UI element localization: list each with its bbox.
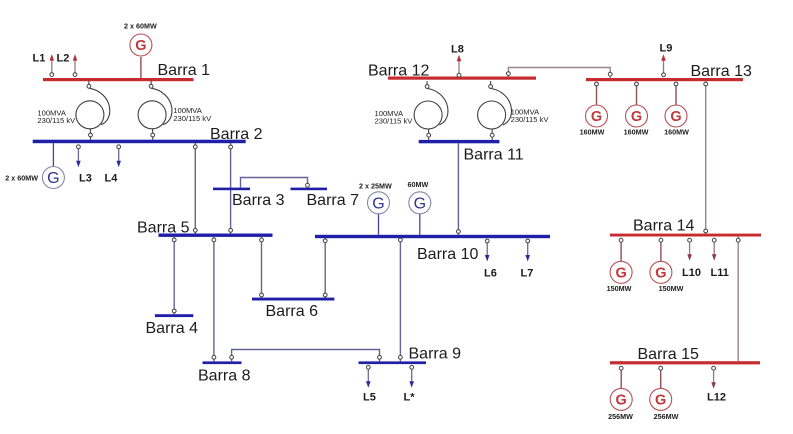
svg-text:230/115 kV: 230/115 kV — [173, 114, 212, 123]
svg-text:L7: L7 — [521, 268, 534, 280]
svg-text:Barra 7: Barra 7 — [307, 192, 360, 209]
svg-text:Barra 4: Barra 4 — [146, 320, 199, 337]
svg-text:L6: L6 — [484, 268, 497, 280]
svg-text:Barra 1: Barra 1 — [158, 62, 211, 79]
svg-text:150MW: 150MW — [659, 284, 684, 293]
svg-text:L4: L4 — [105, 173, 119, 185]
svg-text:60MW: 60MW — [408, 180, 429, 189]
svg-text:Barra 6: Barra 6 — [266, 303, 319, 320]
svg-text:Barra 10: Barra 10 — [417, 246, 478, 263]
svg-text:230/115 kV: 230/115 kV — [37, 116, 76, 125]
svg-text:L12: L12 — [707, 392, 726, 404]
svg-text:Barra 3: Barra 3 — [232, 192, 285, 209]
svg-text:Barra 9: Barra 9 — [409, 346, 462, 363]
svg-text:Barra 11: Barra 11 — [464, 147, 524, 164]
svg-text:L10: L10 — [682, 267, 701, 279]
svg-text:Barra 5: Barra 5 — [137, 220, 190, 237]
svg-text:L*: L* — [404, 392, 416, 404]
svg-text:160MW: 160MW — [664, 128, 689, 137]
svg-text:Barra 13: Barra 13 — [691, 63, 752, 80]
svg-text:Barra 2: Barra 2 — [210, 126, 263, 143]
svg-text:L5: L5 — [363, 392, 376, 404]
svg-text:L1: L1 — [33, 53, 46, 65]
svg-text:Barra 14: Barra 14 — [633, 218, 694, 235]
svg-text:L3: L3 — [79, 173, 92, 185]
svg-text:Barra 12: Barra 12 — [368, 63, 429, 80]
svg-text:256MW: 256MW — [654, 412, 679, 421]
svg-text:Barra 8: Barra 8 — [198, 368, 251, 385]
svg-text:160MW: 160MW — [580, 128, 605, 137]
svg-text:160MW: 160MW — [624, 128, 649, 137]
svg-text:2 x 60MW: 2 x 60MW — [5, 174, 38, 183]
svg-text:2 x 60MW: 2 x 60MW — [124, 22, 157, 31]
svg-text:L11: L11 — [711, 267, 729, 279]
svg-text:230/115 kV: 230/115 kV — [375, 117, 414, 126]
svg-text:L8: L8 — [451, 44, 464, 56]
svg-text:256MW: 256MW — [608, 412, 633, 421]
svg-text:150MW: 150MW — [607, 284, 632, 293]
svg-text:2 x 25MW: 2 x 25MW — [359, 182, 392, 191]
svg-text:Barra 15: Barra 15 — [638, 346, 699, 363]
svg-text:230/115 kV: 230/115 kV — [511, 115, 550, 124]
svg-text:L9: L9 — [660, 43, 673, 55]
svg-text:L2: L2 — [57, 53, 70, 65]
